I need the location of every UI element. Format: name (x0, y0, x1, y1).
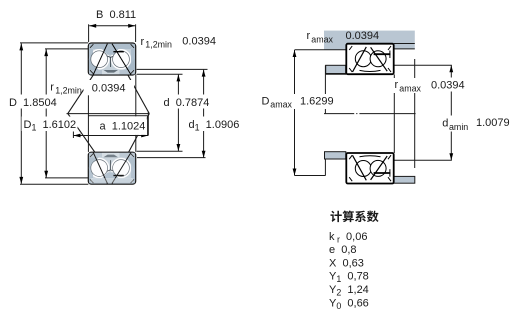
svg-text:r: r (395, 79, 399, 91)
svg-text:1.6299: 1.6299 (300, 96, 334, 108)
svg-text:k r 0,06: k r 0,06 (329, 231, 367, 245)
svg-text:B 0.811: B 0.811 (96, 9, 136, 21)
svg-text:0.0394: 0.0394 (346, 30, 380, 42)
svg-text:r: r (50, 82, 54, 94)
svg-text:amax: amax (270, 100, 292, 110)
svg-text:Y2 1,24: Y2 1,24 (329, 284, 369, 298)
svg-text:r: r (307, 30, 311, 42)
svg-text:a 1.1024: a 1.1024 (100, 121, 146, 133)
svg-text:0.0394: 0.0394 (431, 80, 465, 92)
svg-text:amax: amax (311, 35, 333, 45)
svg-text:X 0,63: X 0,63 (329, 257, 364, 269)
svg-text:D: D (262, 96, 270, 108)
svg-text:0.0394: 0.0394 (182, 36, 216, 48)
svg-text:Y1 0,78: Y1 0,78 (329, 271, 369, 285)
svg-text:0.0394: 0.0394 (92, 82, 126, 94)
svg-text:r: r (141, 36, 145, 48)
svg-text:D1 1.6102: D1 1.6102 (24, 119, 77, 133)
svg-text:d: d (442, 118, 448, 130)
svg-text:Y0 0,66: Y0 0,66 (329, 297, 369, 311)
svg-text:d 0.7874: d 0.7874 (164, 97, 210, 109)
svg-text:1,2min: 1,2min (145, 40, 172, 50)
svg-text:amin: amin (449, 122, 468, 132)
svg-text:1.0079: 1.0079 (476, 117, 510, 129)
svg-text:D 1.8504: D 1.8504 (9, 97, 57, 109)
svg-text:amax: amax (399, 84, 421, 94)
svg-text:e 0,8: e 0,8 (329, 244, 357, 256)
svg-text:1,2min: 1,2min (55, 86, 82, 96)
